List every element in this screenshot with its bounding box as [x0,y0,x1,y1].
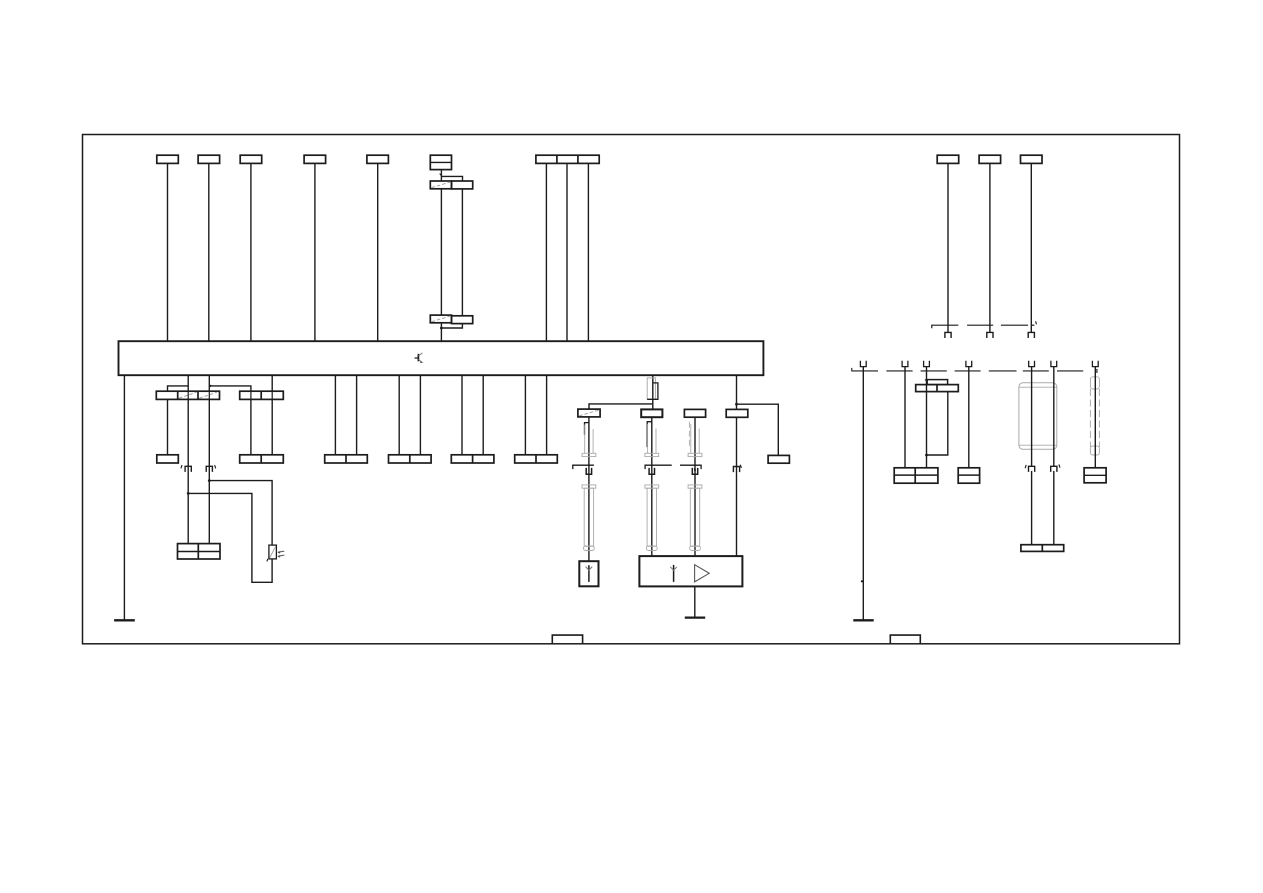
wire U1 to C7 (right) [546,375,548,455]
connector E3 [1021,155,1043,163]
antenna unit U3 [579,561,598,586]
connector terminal fork F5 [1029,361,1035,367]
wire U1 to connector B1 cell3 [208,375,210,391]
connector row C5 (2-cell) [389,455,432,463]
wire D1 to antenna unit U3 [588,417,590,561]
ground wire from U2 [694,586,696,617]
connector row B1 (3-cell) [156,391,219,399]
wire B1 cell3 down [208,399,210,543]
connector E6 [958,468,979,483]
inline connector C2 bridge [440,324,462,330]
transistor symbol Q1 inside U1 [415,353,424,363]
connector D3 [684,409,705,417]
wire C1 to C2 (right) [461,189,463,316]
ground wire from U1 pin1 [123,375,125,620]
connector half below E1 [945,332,951,338]
connector half below E3 [1028,332,1034,338]
connector E8 [1084,468,1106,483]
connector A5 [367,155,389,163]
branch to sensor bottom [187,492,272,582]
ground wire right [861,367,863,621]
wire U1 to D4 [735,375,738,409]
wire A5 to bus [377,163,379,341]
inline connector C9 (left) [1025,465,1035,472]
wire B1 cell2 down [187,399,189,543]
wire U1 to C4 (right) [356,375,358,455]
wire E5 to E4 (left) [926,392,928,468]
branch wire to terminal D5 [737,404,779,455]
connector E7 (2-cell) [1021,545,1064,552]
connector terminal fork F2 [902,361,908,367]
ground G2 [685,616,705,618]
wire F7 to connector E8 [1094,367,1096,468]
connector D4 [726,409,748,417]
connector D2 [641,409,662,417]
fuse F1 (inline) [647,378,658,399]
wire A4 to bus [314,163,316,341]
connector D1 [578,409,600,417]
wire C9 to E7 (left) [1031,471,1033,545]
wire B1 to B3 [167,399,169,454]
connector A3 [240,155,262,163]
branch to sensor top [208,479,272,545]
connector terminal fork F4 [966,361,972,367]
wire through B1 cell3 [208,391,210,399]
wire U1 to C5 (left) [398,375,400,455]
shield sheath S1 (pair) [1019,383,1057,450]
connector A4 [304,155,326,163]
wire A7-3 to bus [587,163,589,341]
connector terminal fork F3 [924,361,930,367]
relay E5 (2-cell) [916,385,959,392]
wire A7-1 to bus [545,163,547,341]
wire U1 to fuse F1 [652,375,654,409]
shield sheath on D1 feeder [573,423,596,551]
connector half below E2 [987,332,993,338]
shield sheath on D2 feeder [645,422,672,551]
wire through B2 cell1 [250,391,252,399]
frame tab 1 [552,635,582,644]
harness boundary 2 (dashed) [852,368,1097,373]
connector E4 (2x2) [894,468,938,483]
antenna amplifier U2 [639,556,742,586]
connector row B4 (2-cell) [240,455,284,463]
bridge wire to connector B2 [209,384,251,391]
connector row B2 (2-cell) [240,391,284,399]
wire B2 to B4 (right) [271,399,273,454]
terminal D5 [768,455,789,463]
wire A1 to bus [167,163,169,341]
connector A6 (2-row) [430,155,451,169]
wire through B1 cell2 [187,391,189,399]
branch wire to connector D1 [589,404,653,409]
wire D3 to amplifier U2 [694,417,696,556]
inline connector C1 female half [430,181,451,189]
connector terminal fork F7 [1092,361,1098,367]
wire U1 to connector B2 cell2 [271,375,273,391]
wire A6 to inline connector C1 [439,170,441,181]
wire F2 to connector E4 [904,367,906,468]
wire C1 to C2 (left) [440,189,442,315]
wire F3 to relay E5 [925,367,927,392]
connector row C4 (2-cell) [325,455,368,463]
wire U1 to C4 (left) [334,375,336,455]
shield sheath S2 (single) [1090,377,1099,455]
shield sheath on D3 feeder [680,422,702,551]
connector terminal fork F1 [860,361,866,367]
connector B3 [157,455,179,463]
relay E5 top [927,380,947,385]
frame (diagram border) [83,135,1180,644]
wire C2 to bus [440,323,442,341]
wire A3 to bus [250,163,252,341]
wire E3 to boundary [1030,163,1032,332]
connector A2 [198,155,220,163]
inline connector C9 (right) [1051,464,1060,472]
ground G1 [114,619,135,621]
connector E1 [937,155,959,163]
audio unit U1 (bus) [119,341,764,375]
connector A7 (3-cell) [536,155,599,163]
wire F4 to connector E6 [968,367,970,468]
wire A7-2 to bus [566,163,568,341]
wire U1 to C5 (right) [419,375,421,455]
inline connector C2 female half [430,315,451,323]
wire U1 to C6 (right) [482,375,484,455]
inline connector C2 male half [452,316,473,324]
inline connector C1 bridge [441,176,462,181]
harness boundary 1 (dashed) [932,321,1037,328]
wire U1 to C6 (left) [461,375,463,455]
photo sensor R1 [267,545,284,561]
connector E2 [979,155,1001,163]
frame tab 2 [890,635,920,644]
connector row C6 (2-cell) [451,455,494,463]
wire U1 to C7 (left) [524,375,526,455]
connector terminal fork F6 [1051,361,1057,367]
inline connector C3 (left) [181,465,191,472]
wire U1 to connector B1 cell2 [187,375,189,391]
connector A1 [157,155,179,163]
wire F5 down [1031,367,1033,467]
wire through B2 cell2 [271,391,273,399]
wire D2 to amplifier U2 [651,417,653,556]
wire E5 loop (right) [925,392,948,457]
wire D4 to amplifier U2 [736,417,738,556]
wire A2 to bus [208,163,210,341]
wire F6 down [1053,367,1055,467]
inline connector C8 [733,465,741,472]
inline connector C1 male half [452,181,473,189]
wire E1 to boundary [947,163,949,332]
wire E2 to boundary [989,163,991,332]
inline connector C3 (right) [206,465,216,472]
wire C9 to E7 (right) [1053,471,1055,545]
bridge wire to B1 cell1 [168,386,189,391]
component B5 (2x2 connector) [178,544,221,559]
connector row C7 (2-cell) [515,455,558,463]
wire B2 to B4 (left) [250,399,252,454]
ground G3 [853,619,873,621]
